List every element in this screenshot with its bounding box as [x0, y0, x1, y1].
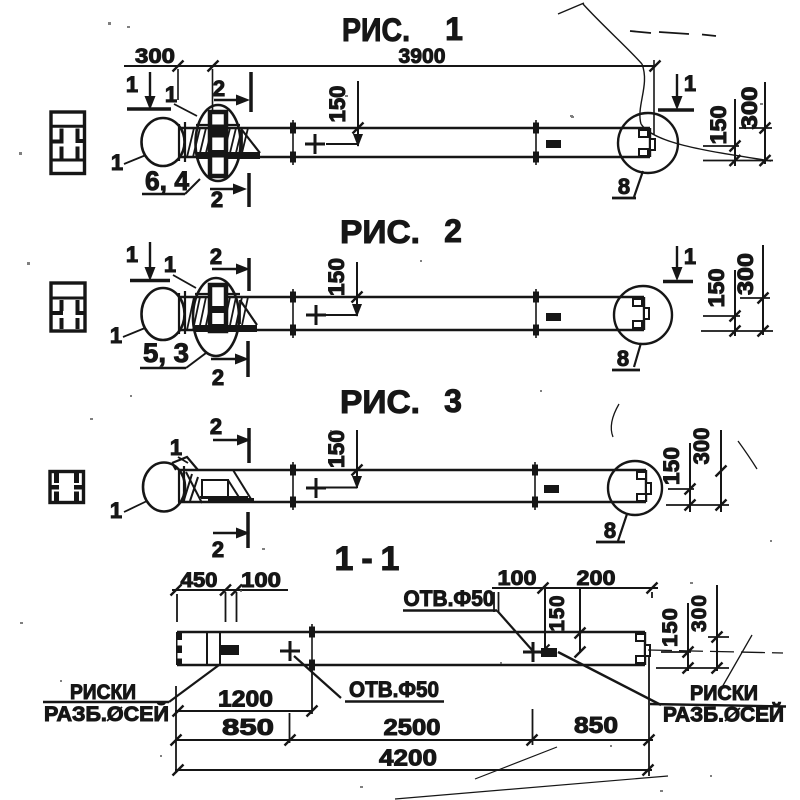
svg-text:8: 8 [618, 174, 630, 199]
label 1 (fig.3 left circle) [110, 498, 147, 523]
detail circle 8 (fig.1 right) [618, 113, 678, 173]
embedded flag plate left (section 1-1) [221, 645, 239, 655]
leader label 1 (fig.3 top) [170, 435, 188, 463]
svg-text:150: 150 [325, 86, 350, 123]
dimension 1200 (section bottom) [173, 666, 318, 717]
beam outline (fig.2) [178, 297, 644, 330]
svg-text:3: 3 [444, 383, 462, 419]
svg-text:300: 300 [135, 44, 175, 68]
svg-text:1: 1 [126, 72, 138, 97]
embedded plate mark (fig.1) [546, 140, 561, 148]
gusset triangle (fig.2) [240, 300, 257, 325]
svg-text:200: 200 [577, 566, 616, 590]
beam left end plate (section 1-1) [176, 632, 183, 665]
svg-text:300: 300 [737, 87, 762, 130]
callout ОТВ.Ф50 (lower) [294, 656, 444, 702]
riska mark (section 1-1 left) [309, 624, 315, 673]
section mark 2 bottom (fig.3) [212, 512, 250, 562]
svg-text:150: 150 [659, 447, 684, 485]
callout РИСКИ РАЗБ.ОСЕЙ (right) [558, 635, 786, 727]
svg-text:РАЗБ.ОСЕЙ: РАЗБ.ОСЕЙ [44, 702, 169, 726]
beam end detail (fig.2 right) [633, 299, 649, 328]
beam end plate lines (fig.2) [179, 291, 185, 334]
title РИС. 2 [340, 213, 462, 250]
svg-text:РИС.: РИС. [340, 384, 420, 420]
label 5, 3 [140, 338, 206, 368]
title 1 - 1 [335, 540, 400, 578]
svg-text:1200: 1200 [218, 686, 273, 712]
lifting hole cross (fig.1) [305, 134, 325, 154]
svg-text:150: 150 [324, 430, 349, 468]
svg-text:2: 2 [213, 76, 225, 101]
svg-text:1: 1 [165, 82, 177, 107]
beam end plate lines (fig.1) [179, 122, 185, 162]
section mark 1 (fig.1 left) [126, 72, 171, 110]
dimension 850 / 2500 / 850 (section bottom) [171, 709, 655, 746]
scan artifact diagonal (bottom, shallow) [395, 776, 668, 799]
dimension text 300 [135, 44, 175, 68]
svg-text:300: 300 [733, 253, 758, 295]
section mark 1 (fig.2 right) [663, 244, 696, 282]
lifting hole cross (fig.2) [306, 305, 326, 325]
riska mark left (fig.2) [290, 289, 296, 338]
svg-text:1: 1 [110, 323, 122, 348]
svg-text:100: 100 [241, 568, 281, 592]
title РИС. 3 [340, 383, 462, 420]
scan leader curves (fig.1) [558, 3, 771, 161]
embedded plate mark (fig.2) [546, 313, 561, 321]
svg-text:РИС.: РИС. [340, 214, 420, 250]
bearing plate bar (fig.1) [196, 152, 260, 159]
svg-text:850: 850 [222, 714, 274, 740]
label 6, 4 [142, 166, 200, 196]
lifting hole cross (fig.3) [306, 478, 326, 498]
dimension 100 / 200 (section top right) [492, 566, 658, 658]
column section symbol (fig.3) [50, 472, 84, 503]
dimension 450 / 100 (section top left) [171, 568, 289, 622]
dimension text 3900 [399, 44, 446, 68]
section mark 1 (fig.1 right) [658, 71, 696, 110]
svg-text:150: 150 [704, 269, 729, 308]
svg-text:6, 4: 6, 4 [145, 166, 189, 196]
leader label 1 (fig.1 plate) [165, 82, 197, 116]
dimension 150 (fig.3 hole) [324, 430, 363, 489]
svg-text:300: 300 [688, 594, 711, 632]
detail circle (fig.2 left) [142, 288, 185, 340]
svg-text:150: 150 [706, 106, 731, 145]
detail circle 8 (fig.2 right) [614, 286, 672, 344]
svg-text:РИС.: РИС. [342, 12, 410, 48]
svg-text:2: 2 [212, 365, 224, 390]
section mark 2 top (fig.1) [213, 72, 251, 112]
gusset triangle (fig.1) [242, 130, 260, 153]
svg-text:450: 450 [181, 568, 218, 592]
svg-text:-: - [361, 540, 372, 578]
scan artifact diagonal (bottom, steep) [475, 747, 557, 779]
column section symbol (fig.1) [50, 112, 86, 174]
riska mark left (fig.3) [290, 462, 296, 510]
bearing bar (fig.3) [208, 498, 254, 503]
svg-text:РАЗБ.ОСЕЙ: РАЗБ.ОСЕЙ [663, 703, 784, 727]
svg-text:РИСКИ: РИСКИ [690, 682, 758, 705]
detail ellipse (fig.2 plate) [193, 278, 239, 356]
svg-text:2500: 2500 [384, 714, 441, 740]
svg-text:2: 2 [212, 537, 224, 562]
svg-text:2: 2 [211, 187, 223, 212]
svg-text:1: 1 [684, 71, 696, 96]
detail ellipse (fig.1 plate) [196, 105, 241, 181]
svg-text:100: 100 [498, 566, 537, 590]
svg-text:1: 1 [170, 435, 182, 460]
svg-text:1: 1 [684, 244, 696, 269]
riska mark right (fig.3) [532, 462, 538, 510]
bearing plate bar (fig.2) [195, 325, 257, 332]
hatching (fig.2 end block) [187, 294, 248, 330]
beam end plate lines (fig.3) [179, 466, 184, 502]
beam end detail (fig.1 right) [639, 130, 655, 156]
svg-text:8: 8 [617, 346, 629, 371]
section mark 2 top (fig.2) [210, 244, 250, 291]
callout ОТВ.Ф50 (upper) [403, 586, 532, 650]
dimension 150 (fig.2 hole) [324, 258, 363, 317]
section mark 2 bottom (fig.2) [211, 341, 249, 390]
detail circle (fig.1 left) [142, 118, 185, 166]
dimension line 300 / 3900 (fig.1) [124, 60, 661, 135]
svg-text:150: 150 [659, 607, 682, 647]
beam end detail (fig.3 right) [637, 472, 651, 501]
svg-text:ОТВ.Ф50: ОТВ.Ф50 [404, 586, 495, 611]
svg-text:300: 300 [689, 428, 714, 465]
hole cross right (section 1-1) [523, 642, 543, 662]
label 1 (fig.1 left circle) [111, 150, 146, 175]
embedded flag plate right (section 1-1) [541, 648, 557, 657]
label 8 (fig.1) [612, 171, 643, 199]
scan artifact curves (fig.3) [611, 404, 757, 469]
svg-text:150: 150 [546, 595, 569, 632]
riska mark left (fig.1) [290, 120, 296, 165]
dimensions 150 / 300 (section right) [656, 585, 729, 674]
title РИС. 1 [342, 11, 463, 48]
riska mark right (fig.1) [533, 120, 539, 165]
svg-text:1: 1 [445, 11, 463, 47]
svg-text:1: 1 [381, 540, 400, 578]
svg-text:850: 850 [574, 712, 618, 738]
svg-text:5, 3: 5, 3 [143, 338, 189, 368]
svg-text:4200: 4200 [379, 745, 437, 771]
dimension 4200 (section bottom) [173, 655, 654, 776]
beam body (section 1-1) [177, 632, 645, 665]
dimensions 150 / 300 (fig.2 right) [701, 245, 773, 337]
svg-text:1: 1 [335, 540, 354, 578]
column stub (fig.2) [210, 285, 226, 331]
dimension 150 (fig.1 hole) [325, 81, 364, 147]
svg-text:1: 1 [126, 242, 138, 267]
beam outline (fig.1) [178, 128, 650, 157]
svg-text:ОТВ.Ф50: ОТВ.Ф50 [349, 677, 439, 702]
dimensions 150 / 300 (fig.3 right) [659, 428, 729, 513]
column stub (fig.1) [210, 112, 226, 176]
svg-text:3900: 3900 [399, 44, 446, 68]
svg-text:2: 2 [210, 414, 222, 439]
section mark 2 top (fig.3) [210, 414, 251, 463]
svg-text:1: 1 [164, 252, 176, 277]
axis dash line (section right) [648, 650, 783, 653]
hatching (fig.1 end block) [187, 125, 248, 157]
section mark 2 bottom (fig.1) [210, 173, 249, 212]
svg-text:РИСКИ: РИСКИ [70, 681, 136, 704]
dimensions 150 / 300 (fig.1 right) [703, 82, 773, 166]
partition lines (section 1-1 left) [207, 632, 220, 665]
beam right end detail (section 1-1) [636, 632, 650, 665]
svg-text:150: 150 [324, 258, 349, 296]
svg-text:1: 1 [110, 498, 122, 523]
svg-text:2: 2 [210, 244, 222, 269]
beam outline (fig.3) [178, 470, 646, 502]
svg-text:1: 1 [111, 150, 123, 175]
corbel detail (fig.3) [184, 470, 251, 503]
detail circle (fig.3 left) [143, 463, 185, 512]
label 8 (fig.2) [612, 343, 641, 371]
label 8 (fig.3) [596, 514, 627, 543]
leader label 1 (fig.2 plate) [164, 252, 196, 288]
section mark 1 (fig.2 left) [126, 242, 170, 281]
svg-text:8: 8 [604, 518, 616, 543]
svg-text:2: 2 [444, 213, 462, 249]
embedded plate mark (fig.3) [544, 485, 559, 493]
end flag plate (fig.3) [172, 457, 198, 470]
riska mark right (fig.2) [533, 289, 539, 338]
column section symbol (fig.2) [50, 283, 86, 331]
hole cross left (section 1-1) [280, 641, 300, 661]
callout РИСКИ РАЗБ.ОСЕЙ (left) [43, 665, 219, 726]
label 1 (fig.2 left circle) [110, 323, 145, 348]
detail circle 8 (fig.3 right) [608, 461, 662, 515]
